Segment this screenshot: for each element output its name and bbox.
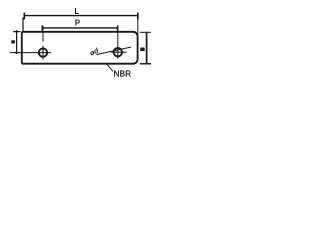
svg-text:NBR: NBR bbox=[114, 70, 132, 79]
svg-text:L: L bbox=[74, 7, 79, 16]
svg-text:P: P bbox=[75, 19, 81, 28]
svg-text:ød: ød bbox=[88, 46, 100, 58]
